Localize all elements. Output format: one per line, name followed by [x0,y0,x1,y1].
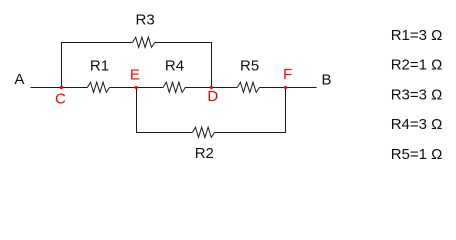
wire: node F down to bottom branch [285,87,287,133]
svg-text:R3=3 Ω: R3=3 Ω [391,86,443,103]
svg-text:R5: R5 [240,58,259,75]
svg-text:R4: R4 [165,58,184,75]
svg-text:A: A [14,71,24,88]
svg-text:R2: R2 [195,145,214,162]
wire: R1 through node E to R4 [110,87,164,89]
node E junction dot [135,86,138,89]
wire: node E down to bottom branch [136,87,138,133]
resistor R2 [192,127,214,137]
resistor R4 [163,82,185,92]
svg-text:B: B [322,71,332,88]
node F junction dot [284,86,287,89]
wire: R5 through node F to B lead [259,87,316,89]
wire: node C up to top branch [61,42,63,88]
svg-text:R5=1 Ω: R5=1 Ω [391,146,443,163]
node C junction dot [60,86,63,89]
svg-text:R2=1 Ω: R2=1 Ω [391,57,443,74]
resistor R3 [133,37,155,47]
svg-text:R1: R1 [90,58,109,75]
wire: A lead through node C to R1 [31,87,88,89]
wire: node D up to top branch [211,42,213,88]
svg-text:C: C [55,90,66,107]
wire: top branch right (R3 to D corner) [155,42,212,44]
svg-text:R1=3 Ω: R1=3 Ω [391,27,443,44]
svg-text:D: D [207,88,218,105]
wire: R4 through node D to R5 [185,87,237,89]
resistor R5 [237,82,259,92]
svg-text:R4=3 Ω: R4=3 Ω [391,116,443,133]
wire: top branch left (C corner to R3) [61,42,133,44]
svg-text:F: F [283,66,292,83]
wire: bottom branch left (E corner to R2) [136,132,192,134]
node D junction dot [210,86,213,89]
wire: bottom branch right (R2 to F corner) [215,132,287,134]
svg-text:R3: R3 [136,11,155,28]
resistor R1 [87,82,109,92]
svg-text:E: E [130,67,140,84]
